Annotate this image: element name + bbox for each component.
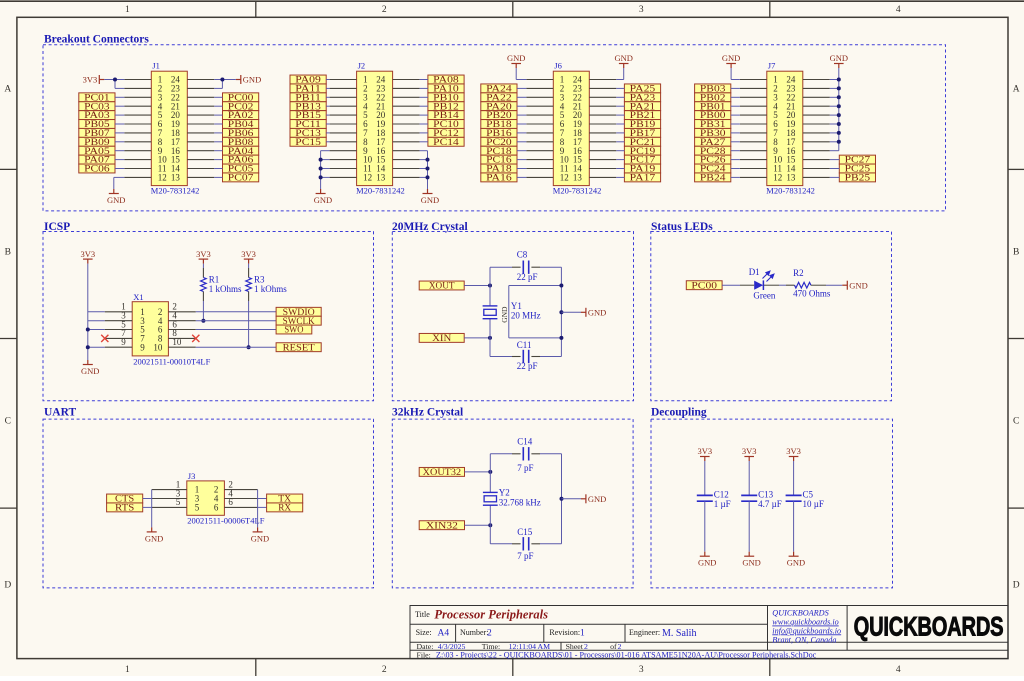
- wire PC01 to J1 pin 3: [115, 96, 124, 98]
- svg-text:D: D: [4, 580, 11, 590]
- svg-text:GND: GND: [742, 558, 760, 568]
- connector J1 body: [151, 71, 187, 185]
- wire X1 pin 4 to SWCLK: [196, 320, 276, 322]
- port PB15 (pin 5 of J2): [290, 111, 326, 120]
- wire PA03 to J1 pin 5: [115, 114, 124, 116]
- port PC11 (pin 6 of J2): [290, 120, 326, 129]
- wire J1 pin 12 to GND: [114, 177, 125, 189]
- junctions J2 right GND bus: [426, 158, 430, 180]
- connector J6 pin numbers: [560, 75, 583, 183]
- wire J6 pin 17 to PC21: [616, 141, 624, 143]
- wire C12 to GND: [704, 501, 706, 552]
- wire J3 pin 6 to RX: [258, 506, 267, 508]
- port PB04 (pin 19 of J1): [223, 120, 259, 129]
- port PC25 (pin 14 of J7): [839, 164, 875, 173]
- ground GND (below J2 right): [427, 189, 429, 194]
- port PB03 (pin 2 of J7): [695, 84, 731, 93]
- port PA03 (pin 5 of J1): [79, 111, 115, 120]
- junction XIN32: [488, 523, 492, 527]
- capacitor C14: [522, 447, 524, 460]
- wire bottom rail C15: [490, 543, 561, 545]
- junction X1 pin 9 bus: [86, 345, 90, 349]
- svg-text:GND: GND: [507, 53, 525, 63]
- LED D1: [754, 271, 774, 290]
- wire PB24 to J7 pin 12: [731, 176, 740, 178]
- svg-text:J1: J1: [152, 61, 160, 71]
- wire PA22 to J6 pin 3: [517, 96, 526, 98]
- connector J2 body: [357, 71, 393, 185]
- junction J1 3V3: [113, 78, 117, 82]
- junction XOUT: [488, 284, 492, 288]
- junctions J7 right GND bus: [837, 78, 841, 144]
- svg-text:GND: GND: [698, 558, 716, 568]
- svg-text:XOUT32: XOUT32: [423, 467, 461, 477]
- wire PB07 to J1 pin 7: [115, 132, 124, 134]
- wire J2 pin 23 to PA10: [420, 87, 428, 89]
- svg-text:10: 10: [153, 342, 163, 352]
- svg-text:Breakout Connectors: Breakout Connectors: [44, 34, 149, 46]
- wire R2 to GND: [826, 284, 842, 286]
- wire J1 pin 21 to PC02: [214, 105, 222, 107]
- capacitor C8: [522, 261, 524, 274]
- port PB25 (pin 13 of J7): [839, 173, 875, 182]
- svg-text:C11: C11: [517, 340, 532, 350]
- port PB08 (pin 17 of J1): [223, 137, 259, 146]
- svg-text:13: 13: [171, 173, 181, 183]
- connector J3 body: [187, 481, 225, 515]
- svg-text:XIN32: XIN32: [426, 520, 458, 530]
- svg-text:9: 9: [140, 342, 145, 352]
- wire GND to J6 pin 1: [516, 68, 526, 80]
- wire J7 pin 14 to PC25: [830, 168, 840, 170]
- junction XIN: [488, 336, 492, 340]
- wire PA11 to J2 pin 2: [326, 87, 329, 89]
- connector J6 pins: [526, 80, 616, 178]
- connector J2 pin numbers: [363, 75, 386, 183]
- port PC21 (pin 17 of J6): [624, 137, 660, 146]
- svg-text:12: 12: [363, 173, 372, 183]
- wire J3 pin 1 to GND: [151, 490, 153, 528]
- port PA25 (pin 23 of J6): [624, 84, 660, 93]
- svg-text:File:: File:: [417, 650, 431, 659]
- wire C5 to GND: [793, 501, 795, 552]
- svg-text:R1: R1: [209, 274, 220, 284]
- svg-text:GND: GND: [421, 195, 439, 205]
- svg-text:GND: GND: [107, 195, 125, 205]
- svg-text:2: 2: [382, 665, 387, 675]
- port RX: [267, 503, 303, 512]
- svg-text:7 pF: 7 pF: [517, 463, 533, 473]
- svg-text:10 µF: 10 µF: [803, 499, 824, 509]
- port PC17 (pin 15 of J6): [624, 155, 660, 164]
- wire PC16 to J6 pin 10: [517, 159, 526, 161]
- port PB24 (pin 12 of J7): [695, 173, 731, 182]
- wire J2 pin 21 to PB12: [420, 105, 428, 107]
- wire CTS to J3 pin 3: [143, 498, 152, 500]
- wire J1 pin 22 to PC00: [214, 96, 222, 98]
- wire J6 pin 15 to PC17: [616, 159, 624, 161]
- port PC20 (pin 8 of J6): [481, 137, 517, 146]
- wire J6 pin 18 to PB17: [616, 132, 624, 134]
- svg-text:4: 4: [896, 665, 901, 675]
- svg-text:13: 13: [573, 173, 583, 183]
- svg-text:www.quickboards.io: www.quickboards.io: [772, 618, 838, 627]
- wire C13 to GND: [748, 501, 750, 552]
- svg-text:GND: GND: [787, 558, 805, 568]
- connector J1 pins: [124, 80, 214, 178]
- wire PB05 to J1 pin 6: [115, 123, 124, 125]
- diode D1 pins: [740, 284, 779, 286]
- svg-text:RTS: RTS: [115, 503, 134, 513]
- svg-text:J6: J6: [554, 61, 562, 71]
- wire J1 pin 20 to PA02: [214, 114, 222, 116]
- wire J6 pin 22 to PA23: [616, 96, 624, 98]
- label R3 value: [254, 274, 287, 294]
- wire right rail: [560, 267, 562, 356]
- svg-text:Size:: Size:: [416, 628, 432, 637]
- connector J2 pins: [330, 80, 420, 178]
- port PC24 (pin 11 of J7): [695, 164, 731, 173]
- port PB16 (pin 7 of J6): [481, 128, 517, 137]
- port PC12 (pin 18 of J2): [428, 128, 464, 137]
- connector J3 pin numbers: [176, 479, 234, 512]
- svg-text:1 µF: 1 µF: [714, 499, 731, 509]
- junction right rail bottom: [559, 336, 563, 340]
- power GND (Status LEDs): [846, 281, 848, 290]
- wire X1 pin 6 to SWO: [196, 329, 276, 331]
- wire XOUT32 to crystal: [465, 471, 491, 473]
- port PC15 (pin 8 of J2): [290, 137, 326, 146]
- port PB10 (pin 22 of J2): [428, 93, 464, 102]
- ground GND (below J1): [113, 189, 115, 194]
- power 3V3 (C13): [744, 456, 754, 458]
- port RTS: [107, 503, 143, 512]
- port PB17 (pin 18 of J6): [624, 128, 660, 137]
- region Breakout Connectors: [43, 45, 946, 211]
- svg-text:C14: C14: [517, 436, 533, 446]
- port PA09 (pin 1 of J2): [290, 75, 326, 84]
- junction X1 pin 5 bus: [86, 328, 90, 332]
- svg-text:5: 5: [195, 503, 200, 513]
- wire J1 pin 24 to GND: [214, 79, 236, 81]
- title block Size row: [416, 628, 697, 639]
- svg-text:3V3: 3V3: [83, 75, 98, 85]
- svg-text:1 kOhms: 1 kOhms: [254, 284, 287, 294]
- port PC10 (pin 19 of J2): [428, 120, 464, 129]
- title block File row: [417, 650, 817, 659]
- wire PA07 to J1 pin 10: [115, 159, 124, 161]
- svg-text:7 pF: 7 pF: [517, 551, 533, 561]
- label C8 value: [517, 250, 538, 282]
- port PB14 (pin 20 of J2): [428, 111, 464, 120]
- port PB02 (pin 3 of J7): [695, 93, 731, 102]
- region UART: [43, 419, 374, 588]
- svg-text:GND: GND: [243, 75, 261, 85]
- svg-text:GND: GND: [251, 533, 269, 543]
- svg-text:2: 2: [487, 629, 492, 639]
- label C12 value: [714, 489, 731, 509]
- wire 3V3 to C5: [793, 461, 795, 495]
- junction R1 to SWCLK: [201, 319, 205, 323]
- ground GND (C5): [793, 552, 795, 557]
- junctions J2 left GND bus: [319, 158, 323, 180]
- port XIN: [419, 333, 464, 342]
- svg-text:PA16: PA16: [486, 173, 512, 183]
- svg-text:20021511-00010T4LF: 20021511-00010T4LF: [133, 357, 210, 367]
- power GND (above J7 right): [834, 63, 844, 65]
- wire J2 pin 22 to PB10: [420, 96, 428, 98]
- port PA18 (pin 11 of J6): [481, 164, 517, 173]
- wire J6 pin 13 to PA17: [616, 176, 624, 178]
- svg-text:QUICKBOARDS: QUICKBOARDS: [854, 612, 1004, 641]
- svg-text:GND: GND: [849, 280, 867, 290]
- svg-text:3V3: 3V3: [697, 446, 712, 456]
- svg-text:UART: UART: [44, 406, 77, 418]
- wire PB02 to J7 pin 3: [731, 96, 740, 98]
- svg-text:M20-7831242: M20-7831242: [766, 186, 815, 196]
- svg-text:32kHz Crystal: 32kHz Crystal: [392, 406, 463, 418]
- wire PC15 to J2 pin 8: [326, 141, 329, 143]
- wire J6 pin 23 to PA25: [616, 87, 624, 89]
- port PB11 (pin 3 of J2): [290, 93, 326, 102]
- wire J6 pin 21 to PA21: [616, 105, 624, 107]
- svg-text:32.768 kHz: 32.768 kHz: [499, 497, 541, 507]
- no-connect X1 pin 8: [192, 335, 199, 342]
- no-connect X1 pin 7: [101, 335, 108, 342]
- wire PB09 to J1 pin 8: [115, 141, 124, 143]
- wire D1 to R2: [779, 284, 786, 286]
- svg-text:20 MHz: 20 MHz: [511, 310, 541, 320]
- wire 3V3 to J1 pin 1: [104, 79, 124, 81]
- svg-text:RESET: RESET: [283, 342, 316, 352]
- port CTS: [107, 494, 143, 503]
- svg-text:C5: C5: [803, 489, 814, 499]
- wire J6 pin 20 to PB21: [616, 114, 624, 116]
- connector J7 pin numbers: [773, 75, 796, 183]
- wire X1 pin 2 to SWDIO: [196, 311, 276, 313]
- port PA23 (pin 22 of J6): [624, 93, 660, 102]
- port PC18 (pin 9 of J6): [481, 146, 517, 155]
- crystal Y2: [483, 491, 498, 493]
- power GND (above J6 right): [619, 63, 629, 65]
- resistor R3: [246, 264, 252, 348]
- label C14 value: [517, 436, 533, 473]
- svg-text:6: 6: [214, 503, 219, 513]
- label Y2 value: [499, 488, 541, 508]
- svg-text:C15: C15: [517, 527, 533, 537]
- capacitor C11: [522, 350, 524, 363]
- wire J1 pin 13 to PC07: [214, 176, 222, 178]
- ground GND (ICSP): [87, 360, 89, 365]
- port PA02 (pin 20 of J1): [223, 111, 259, 120]
- power GND (20MHz): [585, 308, 587, 317]
- wire PA16 to J6 pin 12: [517, 176, 526, 178]
- port SWDIO: [276, 307, 321, 316]
- label R1 value: [209, 274, 242, 294]
- connector J7 pins: [740, 80, 830, 178]
- svg-text:PC15: PC15: [295, 137, 321, 147]
- ground GND (below J2 left): [320, 189, 322, 194]
- wire PB01 to J7 pin 4: [731, 105, 740, 107]
- svg-text:SWO: SWO: [284, 325, 304, 335]
- wire PC20 to J6 pin 8: [517, 141, 526, 143]
- wire XOUT to crystal: [464, 285, 490, 287]
- wire J6 pin 16 to PC19: [616, 150, 624, 152]
- port PA20 (pin 4 of J6): [481, 102, 517, 111]
- svg-text:4.7 µF: 4.7 µF: [758, 499, 782, 509]
- svg-text:D1: D1: [749, 267, 760, 277]
- wire RTS to J3 pin 5: [143, 506, 152, 508]
- port PA19 (pin 14 of J6): [624, 164, 660, 173]
- junction right rail middle: [559, 310, 563, 314]
- svg-text:J2: J2: [358, 61, 366, 71]
- svg-text:GND: GND: [588, 307, 606, 317]
- svg-text:GND: GND: [145, 533, 163, 543]
- port PA07 (pin 10 of J1): [79, 155, 115, 164]
- svg-text:1 kOhms: 1 kOhms: [209, 284, 242, 294]
- wires J2 pins 13-16 to right GND bus: [420, 151, 428, 189]
- junction J1 GND: [220, 78, 224, 82]
- wire J1 pin 23 to GND: [214, 80, 222, 89]
- port PA11 (pin 2 of J2): [290, 84, 326, 93]
- label C13 value: [758, 489, 782, 509]
- svg-text:470 Ohms: 470 Ohms: [793, 289, 831, 299]
- wire PA18 to J6 pin 11: [517, 168, 526, 170]
- port PA16 (pin 12 of J6): [481, 173, 517, 182]
- port PC07 (pin 13 of J1): [223, 173, 259, 182]
- port SWO: [276, 325, 312, 334]
- port XOUT: [419, 281, 464, 290]
- port PC27 (pin 15 of J7): [839, 155, 875, 164]
- port PC02 (pin 21 of J1): [223, 102, 259, 111]
- svg-text:3V3: 3V3: [786, 446, 801, 456]
- port PA27 (pin 8 of J7): [695, 137, 731, 146]
- port PA08 (pin 24 of J2): [428, 75, 464, 84]
- wire PC28 to J7 pin 9: [731, 150, 740, 152]
- svg-text:Z:\03 - Projects\22 - QUICKBOA: Z:\03 - Projects\22 - QUICKBOARDS\01 - P…: [436, 650, 817, 659]
- svg-text:J7: J7: [768, 61, 776, 71]
- wire XIN to crystal: [464, 337, 490, 339]
- power GND (J1 top right): [240, 75, 242, 84]
- wire PC13 to J2 pin 7: [326, 132, 329, 134]
- title block Date row: [417, 642, 622, 651]
- wire top rail C8: [490, 266, 561, 268]
- svg-text:PA17: PA17: [630, 173, 656, 183]
- svg-text:3: 3: [639, 5, 644, 15]
- svg-text:PB24: PB24: [700, 173, 726, 183]
- port PB09 (pin 8 of J1): [79, 137, 115, 146]
- svg-text:PC07: PC07: [228, 173, 254, 183]
- wire to GND (32kHz): [562, 498, 582, 500]
- connector J1 pin numbers: [158, 75, 181, 183]
- port PC19 (pin 16 of J6): [624, 146, 660, 155]
- port PB13 (pin 4 of J2): [290, 102, 326, 111]
- region Status LEDs: [651, 232, 892, 401]
- wire PA24 to J6 pin 2: [517, 87, 526, 89]
- svg-text:3V3: 3V3: [241, 249, 256, 259]
- svg-text:R2: R2: [793, 268, 804, 278]
- capacitor C15: [522, 537, 524, 550]
- wire to GND (20MHz): [561, 311, 581, 313]
- wire PC11 to J2 pin 6: [326, 123, 329, 125]
- svg-text:C: C: [1013, 416, 1019, 426]
- wire PC00 to D1: [722, 284, 740, 286]
- title block company info: [772, 609, 841, 645]
- power 3V3 (R1): [199, 258, 209, 260]
- label C15 value: [517, 527, 533, 561]
- wire PA20 to J6 pin 4: [517, 105, 526, 107]
- svg-text:1: 1: [125, 5, 130, 15]
- port PA17 (pin 13 of J6): [624, 173, 660, 182]
- wire J2 pin 17 to PC14: [420, 141, 428, 143]
- wire PB31 to J7 pin 6: [731, 123, 740, 125]
- wire J2 pin 19 to PC10: [420, 123, 428, 125]
- frame zone letters: [4, 84, 1019, 590]
- svg-text:C8: C8: [517, 250, 528, 260]
- port PB06 (pin 18 of J1): [223, 128, 259, 137]
- wire J2 pin 18 to PC12: [420, 132, 428, 134]
- svg-text:GND: GND: [614, 53, 632, 63]
- port SWCLK: [276, 316, 321, 325]
- wire PB18 to J6 pin 6: [517, 123, 526, 125]
- capacitor C5: [786, 494, 802, 496]
- power 3V3 (J1): [98, 75, 100, 84]
- svg-text:9: 9: [121, 337, 126, 347]
- wire right rail (32kHz): [561, 454, 563, 544]
- svg-text:X1: X1: [133, 292, 143, 302]
- port PC14 (pin 17 of J2): [428, 137, 464, 146]
- power GND (above J7 left): [726, 63, 736, 65]
- wire crystal left branch: [489, 267, 491, 356]
- svg-text:PC06: PC06: [84, 164, 110, 174]
- wire J1 pin 14 to PC05: [214, 168, 222, 170]
- wire GND to J7 pin 1: [731, 68, 740, 80]
- svg-text:GND: GND: [500, 306, 509, 323]
- svg-text:6: 6: [228, 497, 233, 507]
- svg-text:M20-7831242: M20-7831242: [356, 186, 405, 196]
- wire PC03 to J1 pin 4: [115, 105, 124, 107]
- wire PB03 to J7 pin 2: [731, 87, 740, 89]
- svg-text:M20-7831242: M20-7831242: [553, 186, 602, 196]
- port PC16 (pin 10 of J6): [481, 155, 517, 164]
- port XOUT32: [419, 467, 464, 476]
- region 32kHz Crystal: [392, 419, 633, 588]
- svg-text:XOUT: XOUT: [429, 281, 455, 291]
- svg-text:A: A: [4, 84, 11, 94]
- svg-text:Decoupling: Decoupling: [651, 406, 707, 418]
- wire crystal left branch (32kHz): [489, 454, 491, 544]
- svg-text:B: B: [5, 247, 11, 257]
- svg-text:A4: A4: [438, 629, 450, 639]
- wire J7 pin 13 to PB25: [830, 176, 840, 178]
- svg-text:C13: C13: [758, 489, 774, 499]
- svg-text:Number:: Number:: [460, 628, 488, 637]
- svg-text:Green: Green: [753, 291, 775, 301]
- port PA22 (pin 3 of J6): [481, 93, 517, 102]
- svg-text:GND: GND: [81, 366, 99, 376]
- wires J2 pins 9-12 to left GND bus: [321, 151, 330, 189]
- wire J3 pin 2 to GND: [257, 490, 259, 528]
- wire 3V3 down to X1 and GND bus: [88, 264, 105, 360]
- svg-text:3V3: 3V3: [742, 446, 757, 456]
- wire J1 pin 19 to PB04: [214, 123, 222, 125]
- svg-text:20021511-00006T4LF: 20021511-00006T4LF: [187, 516, 264, 526]
- port PA04 (pin 16 of J1): [223, 146, 259, 155]
- svg-text:J3: J3: [188, 471, 196, 481]
- junction XOUT32: [488, 470, 492, 474]
- svg-text:B: B: [1013, 247, 1019, 257]
- wire PA27 to J7 pin 8: [731, 141, 740, 143]
